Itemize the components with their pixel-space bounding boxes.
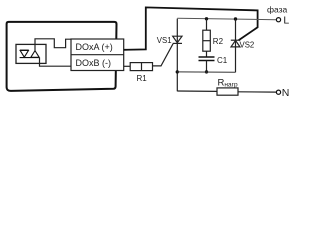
mid bottom rail	[177, 71, 235, 73]
optocoupler box U1	[16, 44, 46, 63]
svg-text:VS2: VS2	[240, 41, 255, 50]
wire Rnagr to N	[238, 91, 276, 93]
terminal boxes DOxA / DOxB	[71, 39, 124, 71]
wire C1 bottom	[206, 61, 208, 73]
svg-text:L: L	[283, 14, 289, 26]
wire rail to R2	[206, 19, 208, 30]
thin rail VS1 anode to L	[177, 18, 276, 19]
svg-text:R1: R1	[137, 74, 148, 83]
svg-text:фаза: фаза	[267, 5, 288, 15]
node VS2 top	[234, 17, 237, 20]
wire DOxB to R1	[124, 65, 131, 67]
triac VS2	[231, 19, 240, 72]
node VS1 cathode rail	[176, 70, 179, 73]
svg-text:DOxB (-): DOxB (-)	[76, 58, 112, 68]
wire DOxA to top rail	[124, 7, 258, 49]
node C1 bottom	[205, 70, 208, 73]
resistor R2	[203, 30, 211, 51]
wire R2 to C1	[206, 51, 208, 57]
bottom rail to Rnagr	[177, 90, 217, 92]
wire opto bottom to DOxB	[40, 58, 72, 67]
resistor R1	[130, 63, 152, 71]
optotriac symbol	[20, 50, 40, 58]
thyristor VS1	[173, 19, 182, 92]
svg-text:N: N	[282, 87, 290, 99]
capacitor C1	[199, 56, 215, 58]
node R2 top	[205, 17, 208, 20]
svg-text:C1: C1	[217, 56, 228, 65]
terminal L	[276, 18, 280, 22]
device box	[7, 22, 117, 91]
svg-text:DOxA (+): DOxA (+)	[76, 42, 113, 52]
svg-text:VS1: VS1	[157, 36, 172, 45]
resistor Rnagr	[217, 88, 238, 95]
terminal N	[276, 90, 280, 94]
divider	[71, 54, 124, 56]
wire R1 to VS1 gate	[153, 44, 174, 66]
wire opto top to DOxA	[35, 39, 71, 51]
svg-text:R2: R2	[213, 37, 224, 46]
